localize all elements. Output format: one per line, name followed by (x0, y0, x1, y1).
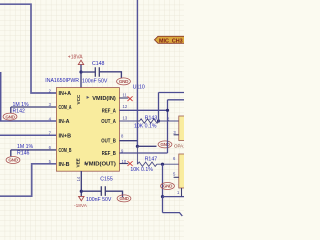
svg-text:12: 12 (123, 104, 128, 109)
svg-text:OPA1: OPA1 (174, 143, 184, 148)
svg-text:11: 11 (123, 93, 128, 98)
svg-text:GND: GND (163, 184, 173, 189)
ground G3 (R146) (6, 157, 20, 164)
right pin names (85, 96, 116, 168)
wire REF_A pin 12 (119, 100, 184, 153)
junction R143 right (157, 119, 160, 122)
svg-text:C155: C155 (100, 177, 113, 183)
junction REF_A (166, 109, 169, 112)
svg-text:IN-A: IN-A (59, 119, 70, 125)
pin 3 stub (174, 134, 179, 136)
svg-text:R147: R147 (145, 156, 158, 162)
resistor R142 labels (13, 102, 30, 114)
resistor R146 labels (17, 144, 34, 156)
svg-text:R146: R146 (17, 150, 30, 156)
svg-text:IN+A: IN+A (59, 91, 72, 97)
wire OUT_B pin 8 (119, 140, 137, 142)
svg-text:VEE: VEE (76, 158, 81, 167)
wire corner to edge (159, 93, 185, 122)
svg-text:1M 1%: 1M 1% (13, 102, 30, 108)
svg-text:IN+B: IN+B (59, 133, 72, 139)
svg-text:1M 1%: 1M 1% (17, 144, 34, 150)
junction on net A (136, 145, 139, 148)
svg-text:VMID(OUT): VMID(OUT) (85, 162, 116, 168)
svg-text:MIC_CH3: MIC_CH3 (159, 39, 183, 45)
wire pin 3 COM_A (11, 107, 57, 114)
wire pin 6 COM_B (11, 150, 57, 156)
junction VCC node (79, 70, 82, 73)
ground G6 (161, 183, 175, 190)
svg-text:COM_B: COM_B (59, 148, 72, 154)
svg-text:-18VA: -18VA (74, 203, 88, 209)
svg-text:13: 13 (123, 116, 128, 121)
junction bottom right (161, 195, 164, 198)
IC U111 lower fragment (179, 154, 185, 188)
wire to ground G6 (162, 164, 164, 196)
power +18VA (68, 55, 84, 88)
svg-text:10K 0.1%: 10K 0.1% (134, 123, 157, 129)
ground stub G4 (137, 145, 156, 147)
svg-text:REF_A: REF_A (102, 108, 116, 114)
pin 10 stub with no-ERC X (119, 163, 128, 165)
svg-text:U110: U110 (133, 84, 145, 90)
power -18VA (74, 196, 88, 209)
port MIC_CH3 (155, 36, 185, 44)
pin 11 stub with no-ERC X (119, 97, 128, 99)
svg-text:GND: GND (5, 114, 15, 119)
right pin numbers (121, 93, 128, 164)
svg-text:100nF 50V: 100nF 50V (86, 197, 112, 203)
resistor R147 (130, 146, 178, 173)
svg-text:COM_A: COM_A (59, 105, 72, 111)
svg-text:GND: GND (160, 142, 170, 147)
junction R147 right (161, 163, 164, 166)
capacitor C148 (81, 61, 121, 78)
wire pin 4 IN-A full width (0, 72, 56, 121)
svg-text:INA1650IPWR: INA1650IPWR (45, 78, 79, 84)
op-amp U110 INA1650 body (56, 84, 145, 171)
wire top-left L to pin 2 (0, 4, 56, 93)
left pin names (59, 91, 72, 168)
ground G1 (C148) (117, 78, 131, 85)
wire pin 7 IN+B (0, 134, 56, 136)
wire pin 5 IN-B and bottom-left L (0, 164, 56, 196)
svg-text:GND: GND (119, 196, 129, 201)
wires bottom right (163, 197, 185, 216)
svg-text:IN-B: IN-B (59, 162, 70, 168)
svg-text:GND: GND (119, 79, 129, 84)
left pin numbers (49, 88, 52, 164)
resistor R143 (119, 115, 178, 129)
VMID(OUT) analog marker (85, 162, 88, 165)
wire REF_B pin 9 (119, 152, 167, 154)
svg-text:GND: GND (8, 158, 18, 163)
pin 5 stub (174, 176, 179, 178)
svg-text:100nF 50V: 100nF 50V (82, 78, 108, 84)
ground G5 (C155) (117, 195, 131, 202)
svg-text:REF_B: REF_B (102, 151, 116, 157)
svg-text:C148: C148 (92, 61, 105, 67)
svg-text:10K 0.1%: 10K 0.1% (130, 167, 153, 173)
VMID(IN) analog marker (87, 96, 90, 99)
vertical net A from top (136, 0, 138, 146)
bottom pin of lower IC (181, 188, 183, 197)
sheet background (0, 0, 184, 240)
svg-text:OUT_A: OUT_A (101, 119, 116, 125)
svg-text:OUT_B: OUT_B (101, 139, 116, 145)
svg-text:VCC: VCC (76, 94, 81, 104)
pin VEE wire to -18VA (80, 171, 82, 196)
svg-text:14: 14 (76, 176, 81, 181)
ground G2 (R142) (3, 113, 17, 120)
capacitor C155 (81, 177, 122, 203)
svg-text:VMID(IN): VMID(IN) (92, 96, 116, 102)
IC U111 upper fragment (179, 116, 185, 141)
